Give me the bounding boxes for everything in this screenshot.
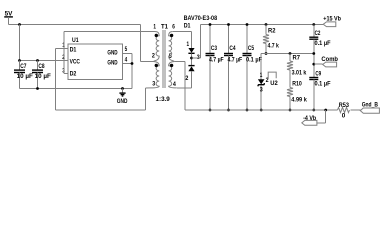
- svg-text:+15 Vb: +15 Vb: [323, 15, 341, 22]
- svg-text:4.7 k: 4.7 k: [268, 42, 280, 49]
- svg-text:4.99 k: 4.99 k: [291, 97, 307, 104]
- svg-text:0.1 µF: 0.1 µF: [246, 57, 262, 64]
- svg-text:Comb: Comb: [321, 56, 338, 63]
- svg-text:3.01 k: 3.01 k: [292, 69, 307, 76]
- svg-text:0: 0: [342, 113, 346, 120]
- svg-text:4.7 µF: 4.7 µF: [209, 57, 224, 64]
- svg-text:U2: U2: [270, 80, 278, 87]
- svg-text:1:3.9: 1:3.9: [156, 96, 171, 103]
- svg-text:0.1 µF: 0.1 µF: [315, 40, 331, 47]
- svg-text:R7: R7: [293, 54, 301, 61]
- svg-text:C2: C2: [315, 30, 321, 37]
- svg-text:D1: D1: [70, 47, 77, 54]
- svg-text:GND: GND: [107, 59, 117, 66]
- svg-text:R2: R2: [268, 28, 276, 35]
- svg-text:0.1 µF: 0.1 µF: [315, 81, 331, 88]
- svg-text:D1: D1: [184, 22, 191, 29]
- svg-text:C5: C5: [248, 45, 254, 52]
- svg-text:-4 Vb: -4 Vb: [303, 115, 316, 122]
- svg-text:Gnd_B: Gnd_B: [362, 102, 378, 109]
- svg-text:D2: D2: [70, 71, 77, 78]
- svg-text:C9: C9: [315, 71, 321, 78]
- svg-text:C8: C8: [38, 63, 44, 70]
- svg-text:C4: C4: [229, 45, 235, 52]
- svg-text:GND: GND: [117, 98, 128, 105]
- svg-text:GND: GND: [107, 49, 117, 56]
- svg-text:10 µF: 10 µF: [35, 73, 51, 80]
- svg-text:C7: C7: [20, 63, 26, 70]
- svg-text:10 µF: 10 µF: [17, 73, 33, 80]
- svg-text:T1: T1: [161, 23, 168, 30]
- svg-text:4.7 µF: 4.7 µF: [228, 57, 243, 64]
- svg-text:R10: R10: [292, 80, 302, 87]
- svg-text:U1: U1: [72, 37, 79, 44]
- svg-text:VCC: VCC: [70, 59, 81, 66]
- svg-text:C3: C3: [211, 45, 217, 52]
- svg-text:R53: R53: [339, 102, 350, 109]
- svg-text:BAV70-E3-08: BAV70-E3-08: [184, 15, 218, 22]
